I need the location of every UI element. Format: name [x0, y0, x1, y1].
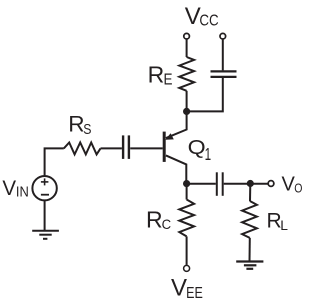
label Q1 — [188, 137, 212, 164]
label RL — [267, 209, 289, 233]
label RC — [146, 207, 171, 233]
terminal VO — [268, 181, 274, 187]
label VIN — [2, 176, 28, 200]
wire node O to VO terminal — [250, 183, 268, 185]
transistor Q1 base bar — [163, 132, 166, 162]
label VCC — [185, 3, 219, 30]
wire collector lead — [166, 155, 186, 183]
svg-text:V: V — [185, 3, 201, 30]
svg-text:R: R — [68, 112, 84, 137]
wire output cap to node O — [224, 183, 251, 185]
svg-text:Q: Q — [188, 137, 206, 159]
capacitor bypass (plate bottom) — [211, 76, 237, 78]
label RS — [68, 112, 91, 139]
wire node O to RL — [249, 184, 251, 201]
wire input cap to RS — [101, 147, 122, 149]
ground RL — [236, 262, 263, 269]
svg-text:R: R — [148, 62, 165, 88]
wire node E to bypass cap — [187, 78, 223, 112]
wire VIN to ground — [44, 200, 46, 230]
wire node C to RC — [186, 184, 188, 200]
svg-text:EE: EE — [186, 285, 203, 302]
capacitor input (plate right) — [128, 135, 130, 159]
capacitor output (plate left) — [216, 172, 218, 196]
svg-text:S: S — [83, 121, 91, 138]
resistor RE — [179, 57, 194, 91]
svg-text:V: V — [171, 275, 187, 302]
wire node C to output cap — [187, 183, 216, 185]
svg-text:E: E — [164, 71, 173, 88]
wire emitter lead — [166, 111, 187, 138]
label VEE — [171, 275, 203, 302]
wire VCC-left to RE top — [186, 39, 188, 57]
VIN plus sign — [41, 178, 49, 185]
resistor RC — [179, 200, 194, 237]
svg-text:V: V — [2, 176, 16, 200]
svg-text:CC: CC — [199, 13, 218, 30]
resistor RS — [64, 143, 101, 155]
terminal VCC right — [220, 33, 226, 39]
capacitor input (plate left) — [122, 135, 124, 159]
wire RC to VEE terminal — [186, 236, 188, 265]
label RE — [148, 62, 173, 89]
svg-text:1: 1 — [205, 144, 212, 164]
wire bypass cap to VCC-right — [222, 39, 224, 70]
VIN minus sign — [41, 194, 49, 196]
svg-text:O: O — [294, 182, 302, 196]
capacitor output (plate right) — [222, 172, 224, 196]
wire RE bottom to node E — [186, 91, 188, 112]
svg-text:C: C — [162, 216, 172, 232]
node O junction dot — [247, 180, 254, 187]
node E junction dot — [183, 108, 190, 115]
resistor RL — [242, 201, 257, 238]
svg-text:IN: IN — [16, 185, 29, 201]
emitter arrow (PNP) — [165, 133, 174, 140]
terminal VCC left — [184, 33, 190, 39]
capacitor bypass (plate top) — [211, 70, 237, 72]
source VIN circle — [32, 176, 56, 200]
label VO — [282, 174, 303, 196]
wire RS to VIN — [45, 148, 64, 175]
svg-text:L: L — [280, 217, 288, 233]
ground VIN — [32, 231, 59, 239]
node C junction dot — [183, 180, 190, 187]
terminal VEE — [184, 265, 190, 271]
svg-text:R: R — [146, 207, 163, 233]
wire base lead — [130, 147, 163, 149]
wire RL to ground — [249, 238, 251, 262]
